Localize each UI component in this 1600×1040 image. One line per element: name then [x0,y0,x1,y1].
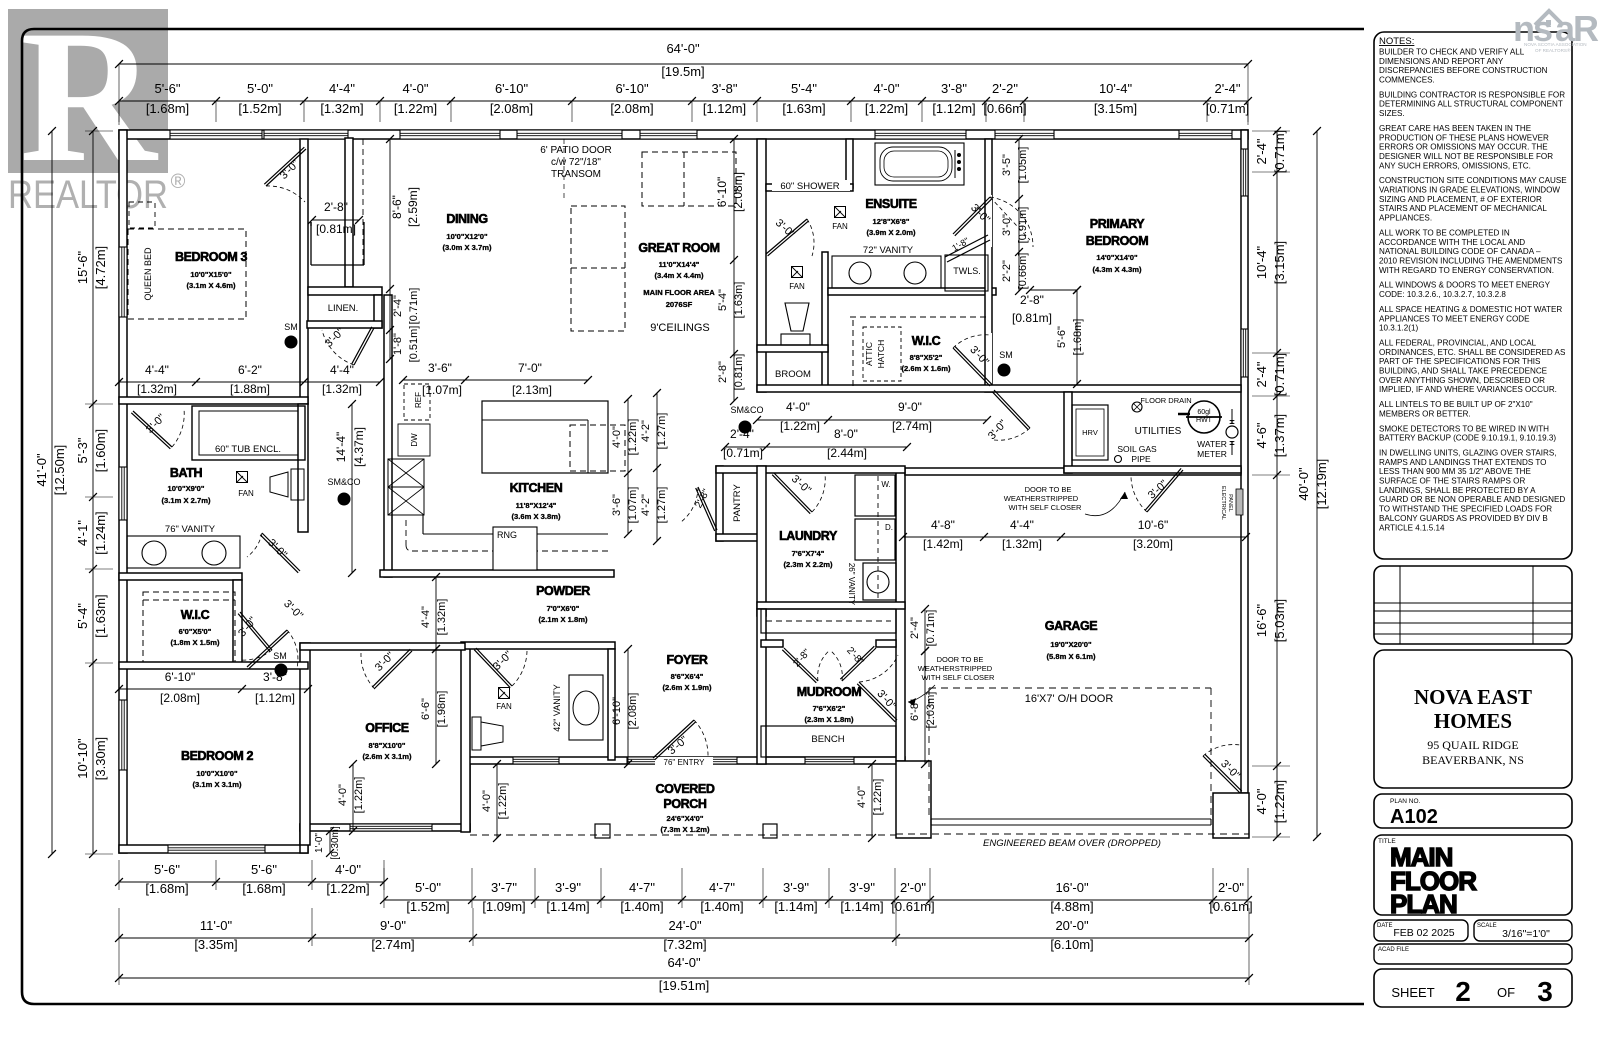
svg-text:BEDROOM 2: BEDROOM 2 [181,749,254,763]
svg-text:4'-0": 4'-0" [874,81,900,96]
svg-text:[6.10m]: [6.10m] [1050,937,1093,952]
svg-text:W.I.C: W.I.C [181,608,210,622]
svg-text:A102: A102 [1390,806,1438,828]
window left wall bath [119,467,127,520]
svg-text:[2.13m]: [2.13m] [512,383,552,397]
wic closet dashed lines [850,316,988,318]
svg-text:60" TUB ENCL.: 60" TUB ENCL. [215,444,281,455]
svg-text:64'-0": 64'-0" [666,41,700,56]
window top wall bedroom3 b [264,130,348,139]
dining left wall [345,138,353,287]
svg-text:5'-6": 5'-6" [1056,326,1068,348]
dim primary 5-6 vertical [1076,290,1078,384]
svg-text:[1.12m]: [1.12m] [932,101,975,116]
svg-text:4'-7": 4'-7" [629,880,655,895]
svg-text:[0.81m]: [0.81m] [316,222,356,236]
kitchen counter dashed [412,550,608,552]
svg-text:2: 2 [1455,976,1471,1007]
window top wall great room [640,130,697,139]
svg-text:HWT: HWT [1196,417,1213,424]
svg-text:26" VANITY: 26" VANITY [847,563,856,606]
svg-text:7'0"X6'0": 7'0"X6'0" [547,604,580,613]
shower ensuite [772,180,850,191]
svg-text:2'-4": 2'-4" [1254,361,1269,387]
floor drain utilities [1132,402,1142,412]
wic bottom primary south wall [757,385,1241,392]
svg-text:(2.6m X 3.1m): (2.6m X 3.1m) [363,752,412,761]
svg-text:D.: D. [885,523,893,532]
svg-text:19'0"X20'0": 19'0"X20'0" [1050,640,1092,649]
svg-text:TO WITHSTAND THE SPECIFIED LOA: TO WITHSTAND THE SPECIFIED LOADS FOR [1379,505,1552,514]
svg-text:3'-6": 3'-6" [428,361,452,375]
wc bottom wall broom top [757,345,828,352]
svg-text:SM: SM [273,651,287,661]
svg-text:DESIGNER WILL NOT BE RESPONSIB: DESIGNER WILL NOT BE RESPONSIBLE FOR [1379,152,1553,161]
window top wall bedroom3 a [170,130,262,139]
svg-text:[1.14m]: [1.14m] [774,899,817,914]
dishwasher kitchen [398,424,430,456]
svg-text:IN DWELLING UNITS, GLAZING OVE: IN DWELLING UNITS, GLAZING OVER STAIRS, [1379,449,1557,458]
svg-text:15'-6": 15'-6" [75,251,90,285]
svg-text:[2.74m]: [2.74m] [892,419,932,433]
utilities bottom wall [1064,466,1241,473]
svg-text:6'-10": 6'-10" [611,697,623,725]
svg-text:WATER: WATER [1197,439,1227,449]
office top wall [300,643,465,650]
svg-text:[1.09m]: [1.09m] [482,899,525,914]
svg-text:4'-4": 4'-4" [329,81,355,96]
svg-text:[1.98m]: [1.98m] [436,691,448,728]
svg-text:76" VANITY: 76" VANITY [165,524,216,535]
svg-text:NOVA SCOTIA ASSOCIATION: NOVA SCOTIA ASSOCIATION [1524,42,1587,47]
svg-text:[1.37m]: [1.37m] [1272,414,1287,457]
garage oh door dashed outline [929,687,1211,689]
svg-text:[1.60m]: [1.60m] [93,429,108,472]
svg-text:PRIMARY: PRIMARY [1090,217,1145,231]
mudroom closet [761,609,896,633]
svg-text:9'-0": 9'-0" [380,918,406,933]
svg-text:10'-4": 10'-4" [1254,246,1269,280]
window front wall c [805,757,854,764]
svg-text:(2.3m X 2.2m): (2.3m X 2.2m) [784,560,833,569]
mudroom garage door [859,682,897,720]
svg-text:6'-10": 6'-10" [495,81,529,96]
laundry vanity 26 [863,563,896,600]
svg-text:8'8"X10'0": 8'8"X10'0" [369,741,406,750]
svg-text:MUDROOM: MUDROOM [797,685,862,699]
svg-text:[1.32m]: [1.32m] [320,101,363,116]
svg-text:ANY SUCH ERRORS, OMISSIONS, ET: ANY SUCH ERRORS, OMISSIONS, ETC. [1379,161,1531,170]
svg-text:3'-7": 3'-7" [491,880,517,895]
dim foyer vertical 6-10 [627,649,629,764]
svg-text:ACCORDANCE WITH THE LOCAL AND: ACCORDANCE WITH THE LOCAL AND [1379,238,1525,247]
svg-text:ALL SPACE HEATING & DOMESTIC H: ALL SPACE HEATING & DOMESTIC HOT WATER [1379,305,1562,314]
svg-text:(3.1m X 4.6m): (3.1m X 4.6m) [187,281,236,290]
svg-text:RAMPS AND LANDINGS THAT EXTEND: RAMPS AND LANDINGS THAT EXTENDS TO [1379,458,1546,467]
svg-text:[3.15m]: [3.15m] [1272,241,1287,284]
svg-text:[0.71m]: [0.71m] [723,446,763,460]
svg-text:(3.6m X 3.8m): (3.6m X 3.8m) [512,512,561,521]
svg-text:(2.6m X 1.9m): (2.6m X 1.9m) [663,683,712,692]
svg-text:DW: DW [410,433,419,447]
svg-text:PORCH: PORCH [663,797,707,811]
wic primary door [953,348,990,386]
svg-text:OF REALTORS®: OF REALTORS® [1535,47,1571,53]
svg-text:[1.63m]: [1.63m] [93,594,108,637]
svg-text:40'-0": 40'-0" [1296,467,1311,501]
svg-text:(1.8m X 1.5m): (1.8m X 1.5m) [171,638,220,647]
svg-text:[1.22m]: [1.22m] [780,419,820,433]
svg-text:5'-0": 5'-0" [247,81,273,96]
svg-text:[1.32m]: [1.32m] [436,599,448,636]
svg-text:2076SF: 2076SF [666,300,693,309]
svg-text:WEATHERSTRIPPED: WEATHERSTRIPPED [918,664,993,673]
dim bedroom3 closet 2-8 [312,219,359,221]
dim great room hall vertical [733,139,735,401]
svg-text:[3.35m]: [3.35m] [194,937,237,952]
right overall dimension 40 ft [1316,131,1318,837]
svg-text:NATIONAL BUILDING CODE OF CANA: NATIONAL BUILDING CODE OF CANADA – [1379,247,1541,256]
plan number box [1374,794,1572,828]
svg-text:41'-0": 41'-0" [34,453,49,487]
primary left wall [985,139,992,392]
svg-text:64'-0": 64'-0" [667,955,701,970]
svg-text:4'-1": 4'-1" [75,520,90,546]
svg-text:[1.07m]: [1.07m] [422,383,462,397]
exterior bottom wall bedroom2 [119,845,308,853]
dim wic bedroom2 row [119,688,308,690]
svg-text:3'-8": 3'-8" [712,81,738,96]
window right wall primary b [1241,329,1248,377]
svg-text:[0.51m]: [0.51m] [408,326,420,363]
svg-text:14'-4": 14'-4" [334,432,348,463]
svg-text:3'-0": 3'-0" [1001,214,1013,236]
svg-text:(3.1m X 2.7m): (3.1m X 2.7m) [162,496,211,505]
svg-text:OF: OF [1497,985,1515,1000]
svg-text:ALL FEDERAL, PROVINCIAL, AND L: ALL FEDERAL, PROVINCIAL, AND LOCAL [1379,339,1537,348]
svg-text:2'-8": 2'-8" [324,200,348,214]
svg-text:4'-6": 4'-6" [1254,422,1269,448]
fridge kitchen [404,384,430,420]
title box main floor plan [1374,835,1572,915]
svg-text:16'-0": 16'-0" [1055,880,1089,895]
porch post right [763,824,777,838]
svg-text:9'CEILINGS: 9'CEILINGS [650,322,710,334]
svg-text:[1.63m]: [1.63m] [782,101,825,116]
svg-text:6'-8": 6'-8" [909,699,921,721]
garage left wall [896,468,905,761]
svg-text:[1.32m]: [1.32m] [322,382,362,396]
svg-text:9'-0": 9'-0" [898,400,922,414]
exterior right wall [1241,130,1248,793]
svg-text:[1.27m]: [1.27m] [656,413,668,450]
wic left right wall [233,580,242,665]
svg-text:[0.81m]: [0.81m] [733,354,745,391]
tub enclosure bath [192,406,305,460]
svg-text:7'6"X6'2": 7'6"X6'2" [813,704,846,713]
svg-text:4'-0": 4'-0" [337,784,349,806]
attic hatch wic [863,327,901,381]
svg-text:ORDINANCES, ETC. SHALL BE CONS: ORDINANCES, ETC. SHALL BE CONSIDERED AS [1379,348,1566,357]
svg-text:14'0"X14'0": 14'0"X14'0" [1096,253,1138,262]
office door [374,651,412,689]
svg-text:3'-8": 3'-8" [941,81,967,96]
svg-text:BATH: BATH [170,466,203,480]
dim kitchen top row [403,379,588,381]
svg-text:10'0"X15'0": 10'0"X15'0" [190,270,232,279]
kitchen island [482,401,608,473]
svg-text:[2.08m]: [2.08m] [490,101,533,116]
kitchen left wall [384,295,392,577]
svg-text:GARAGE: GARAGE [1045,619,1098,633]
svg-text:QUEEN BED: QUEEN BED [143,247,153,301]
svg-text:4'-4": 4'-4" [420,606,432,628]
svg-text:[0.81m]: [0.81m] [1012,311,1052,325]
svg-text:(3.1m X 3.1m): (3.1m X 3.1m) [193,780,242,789]
svg-text:WEATHERSTRIPPED: WEATHERSTRIPPED [1004,494,1079,503]
dim wic 2-8 [1030,289,1077,291]
svg-text:GUARD OR BE NON OPERABLE AND D: GUARD OR BE NON OPERABLE AND DESIGNED [1379,495,1565,504]
svg-text:[1.68m]: [1.68m] [145,881,188,896]
toilet bath [291,469,304,500]
svg-text:76" ENTRY: 76" ENTRY [664,758,706,767]
svg-text:TWLS.: TWLS. [953,266,981,276]
great room furniture dashed [642,152,736,206]
svg-text:6'-10": 6'-10" [715,177,729,208]
garage front dashed line [896,833,1249,835]
svg-text:1'-0": 1'-0" [314,833,325,853]
soil gas pipe [1115,456,1122,463]
svg-text:12'8"X6'8": 12'8"X6'8" [873,217,910,226]
svg-text:[1.12m]: [1.12m] [703,101,746,116]
svg-text:60gl: 60gl [1197,409,1211,416]
svg-text:SIZING AND PLACEMENT, # OF EXT: SIZING AND PLACEMENT, # OF EXTERIOR [1379,195,1542,204]
svg-text:[1.52m]: [1.52m] [238,101,281,116]
exterior left wall [119,130,127,853]
svg-text:3'-5": 3'-5" [1001,154,1013,176]
svg-text:[12.50m]: [12.50m] [52,445,67,496]
water meter utilities [1226,426,1238,438]
dim powder vertical 4-4 [435,577,437,649]
entry door front wall [627,757,709,764]
svg-text:ACAD FILE: ACAD FILE [1378,947,1409,953]
svg-text:[1.88m]: [1.88m] [230,382,270,396]
dim garage side 2-4 [924,609,926,651]
svg-text:[19.5m]: [19.5m] [661,64,704,79]
front wall foyer-mudroom [463,757,905,764]
svg-text:W.: W. [881,480,890,489]
fan ensuite [835,207,846,218]
svg-text:COMMENCES.: COMMENCES. [1379,76,1435,85]
page border frame [22,29,1364,1004]
washer dryer laundry [855,475,895,516]
svg-text:[1.42m]: [1.42m] [923,537,963,551]
svg-text:SHEET: SHEET [1391,985,1434,1000]
svg-text:[0.71m]: [0.71m] [1272,130,1287,173]
dim garage side 6-8 [924,651,926,764]
svg-text:DISCREPANCIES BEFORE CONSTRUCT: DISCREPANCIES BEFORE CONSTRUCTION [1379,66,1548,75]
svg-text:11'8"X12'4": 11'8"X12'4" [516,501,557,510]
svg-text:7'-0": 7'-0" [518,361,542,375]
svg-text:COVERED: COVERED [655,782,714,796]
svg-text:SM&CO: SM&CO [327,477,360,487]
svg-text:4'-0": 4'-0" [611,426,623,448]
hot water tank utilities [1188,401,1220,433]
svg-text:FOYER: FOYER [666,653,707,667]
svg-text:[0.71m]: [0.71m] [1206,101,1249,116]
svg-text:WITH SELF CLOSER: WITH SELF CLOSER [922,673,996,682]
svg-text:ATTIC: ATTIC [864,342,874,366]
garage bottom-left pillar [896,761,931,838]
svg-text:24'-0": 24'-0" [668,918,702,933]
svg-text:4'-0": 4'-0" [1254,788,1269,814]
svg-text:VARIATIONS IN GRADE ELEVATIONS: VARIATIONS IN GRADE ELEVATIONS, WINDOW [1379,186,1560,195]
linen top wall [308,287,382,295]
svg-text:5'-3": 5'-3" [75,437,90,463]
dim office vertical 6-6 [435,649,437,764]
svg-text:[7.32m]: [7.32m] [663,937,706,952]
sheet box [1374,969,1572,1007]
svg-text:NOVA EAST: NOVA EAST [1414,685,1532,709]
svg-text:7'6"X7'4": 7'6"X7'4" [792,549,825,558]
exterior top wall [119,130,1248,139]
wic left closet dashed [143,592,235,662]
svg-text:4'-0": 4'-0" [335,862,361,877]
left dimension column segments [92,131,94,854]
svg-text:PRODUCTION OF THESE PLANS HOWE: PRODUCTION OF THESE PLANS HOWEVER [1379,133,1549,142]
ensuite south wall wic top [828,288,996,295]
svg-text:2'-4": 2'-4" [1215,81,1241,96]
date box [1374,920,1468,941]
top dimension row segments [119,100,1248,102]
svg-text:WITH SELF CLOSER: WITH SELF CLOSER [1009,503,1083,512]
window front wall b [709,757,737,764]
svg-text:[1.14m]: [1.14m] [546,899,589,914]
svg-text:3'-9": 3'-9" [783,880,809,895]
svg-text:8'8"X5'2": 8'8"X5'2" [910,353,943,362]
pantry left wall [716,466,723,541]
svg-text:8'6"X6'4": 8'6"X6'4" [671,672,704,681]
svg-text:4'-8": 4'-8" [931,518,955,532]
laundry bottom wall [757,602,905,609]
pantry laundry west wall [757,466,766,616]
svg-text:BUILDING, AND SHALL TAKE PRECE: BUILDING, AND SHALL TAKE PRECEDENCE [1379,367,1548,376]
svg-text:[1.68m]: [1.68m] [1072,319,1084,356]
svg-text:[4.72m]: [4.72m] [93,246,108,289]
svg-text:[2.08m]: [2.08m] [627,693,639,730]
svg-text:[1.40m]: [1.40m] [700,899,743,914]
svg-text:FAN: FAN [832,222,848,231]
svg-text:UTILITIES: UTILITIES [1135,426,1182,437]
bottom dimension row2 [119,937,1249,939]
svg-text:[1.07m]: [1.07m] [627,487,639,524]
acad file box [1374,944,1572,964]
svg-text:[2.03m]: [2.03m] [925,692,937,729]
powder door [476,648,512,686]
svg-text:ENSUITE: ENSUITE [865,197,916,211]
svg-text:4'-2": 4'-2" [640,420,652,442]
svg-text:GREAT ROOM: GREAT ROOM [638,241,719,255]
shower bottom wall [766,184,853,191]
svg-text:[5.03m]: [5.03m] [1272,599,1287,642]
utilities left wall [1064,392,1072,473]
svg-text:5'-6": 5'-6" [154,862,180,877]
svg-text:(3.0m X 3.7m): (3.0m X 3.7m) [443,243,492,252]
bedroom2 door [247,630,287,667]
svg-text:ALL WINDOWS & DOORS TO MEET EN: ALL WINDOWS & DOORS TO MEET ENERGY [1379,281,1551,290]
range kitchen [493,527,537,570]
svg-text:KITCHEN: KITCHEN [510,481,563,495]
svg-text:PANEL: PANEL [1227,494,1233,512]
svg-text:95 QUAIL RIDGE: 95 QUAIL RIDGE [1427,738,1519,752]
svg-text:11'-0": 11'-0" [200,918,233,933]
svg-text:5'-4": 5'-4" [75,603,90,629]
REALTOR watermark text [8,171,186,217]
svg-text:[1.22m]: [1.22m] [497,783,509,820]
svg-text:PLAN: PLAN [1390,889,1457,919]
bath top wall [119,397,308,404]
fan bath [237,472,248,483]
svg-text:20'-0": 20'-0" [1055,918,1089,933]
svg-text:IMPLIED, IF AND WHERE VARIANCE: IMPLIED, IF AND WHERE VARIANCES OCCUR. [1379,385,1557,394]
svg-text:60" SHOWER: 60" SHOWER [780,181,839,192]
svg-text:2'-2": 2'-2" [1001,260,1013,282]
svg-text:(5.8m X 6.1m): (5.8m X 6.1m) [1047,652,1096,661]
svg-text:[1.63m]: [1.63m] [733,282,745,319]
svg-text:2010 REVISION INCLUDING THE AM: 2010 REVISION INCLUDING THE AMENDMENTS [1379,257,1563,266]
powder-foyer divider wall [608,649,615,760]
pantry cabinet kitchen [388,459,424,487]
svg-text:[19.51m]: [19.51m] [659,978,710,993]
svg-text:[4.88m]: [4.88m] [1050,899,1093,914]
dim hall 8-0 and 2-4 [725,446,907,448]
linen bottom wall [307,321,382,328]
bedroom2 top wall [119,662,308,669]
top dimension row 64 ft overall [119,63,1248,65]
svg-text:4'-4": 4'-4" [330,363,354,377]
dim ensuite right verticals [1018,139,1020,291]
great room hall wall [757,139,766,392]
dim garage top row [903,536,1246,538]
ensuite-primary door [953,197,990,234]
notes panel box [1374,32,1572,559]
svg-text:STAIRS AND PLACEMENT OF MECHAN: STAIRS AND PLACEMENT OF MECHANICAL [1379,204,1547,213]
svg-text:OFFICE: OFFICE [365,721,408,735]
svg-text:APPLIANCES.: APPLIANCES. [1379,214,1432,223]
left overall dimension 41 ft [51,131,53,854]
dim porch 4-0 left [352,764,354,831]
fan powder [499,688,510,699]
svg-text:DIMENSIONS AND REPORT ANY: DIMENSIONS AND REPORT ANY [1379,57,1504,66]
svg-text:4'-0": 4'-0" [856,786,868,808]
svg-text:HRV: HRV [1082,428,1098,437]
wall step office-foyer [463,764,470,831]
bottom dimension row1 right [384,899,1248,901]
svg-text:10'-10": 10'-10" [75,738,90,779]
mudroom closet doors [784,648,818,681]
svg-text:[1.68m]: [1.68m] [242,881,285,896]
svg-text:[1.24m]: [1.24m] [93,511,108,554]
svg-text:[3.20m]: [3.20m] [1133,537,1173,551]
svg-text:[0.66m]: [0.66m] [983,101,1026,116]
svg-text:5'-4": 5'-4" [791,81,817,96]
svg-text:[1.22m]: [1.22m] [627,419,639,456]
wc door [766,219,807,254]
svg-text:SOIL GAS: SOIL GAS [1117,444,1157,454]
svg-text:GREAT CARE HAS BEEN TAKEN IN T: GREAT CARE HAS BEEN TAKEN IN THE [1379,124,1532,133]
svg-text:LESS THAN 900 MM 35 1/2" ABOVE: LESS THAN 900 MM 35 1/2" ABOVE THE [1379,467,1532,476]
svg-text:4'-7": 4'-7" [709,880,735,895]
